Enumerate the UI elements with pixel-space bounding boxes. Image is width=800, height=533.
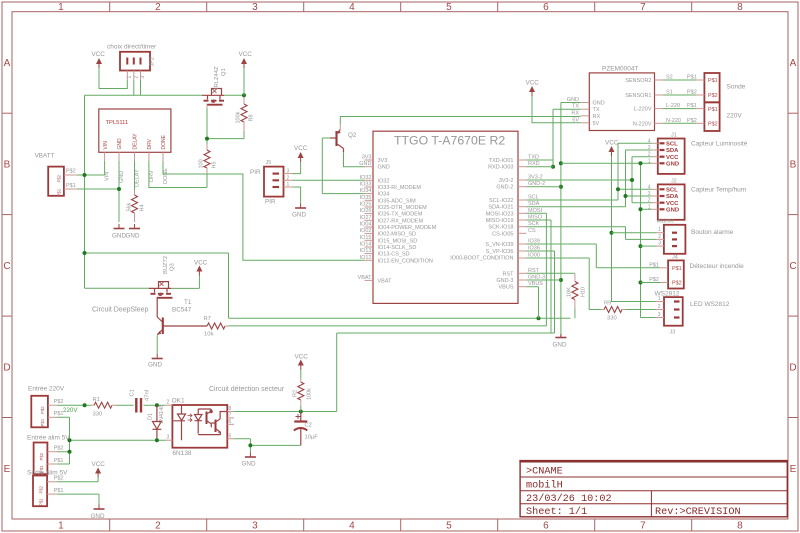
svg-text:L-220V: L-220V xyxy=(634,107,652,113)
svg-text:4: 4 xyxy=(349,521,355,532)
svg-text:>CNAME: >CNAME xyxy=(526,467,563,478)
connector J4sw Bouton alarme xyxy=(657,219,734,254)
internal darlington xyxy=(206,412,208,425)
svg-text:GND: GND xyxy=(593,101,605,107)
svg-text:P$2: P$2 xyxy=(57,174,62,182)
supply VCC (top left) xyxy=(92,51,106,68)
IC PZEM004T xyxy=(567,66,697,131)
svg-text:Q2: Q2 xyxy=(348,132,357,139)
svg-text:3: 3 xyxy=(252,521,258,532)
wire Q3 source to VCC xyxy=(171,276,199,289)
svg-text:VCC: VCC xyxy=(526,80,540,87)
svg-text:6N138: 6N138 xyxy=(172,450,192,457)
svg-text:3: 3 xyxy=(648,145,651,151)
wire T1 emitter to gnd xyxy=(156,336,158,355)
svg-text:SDA: SDA xyxy=(666,194,679,200)
svg-text:1: 1 xyxy=(58,2,64,13)
svg-text:J5: J5 xyxy=(266,160,272,166)
svg-text:IO04-POWER_MODEM: IO04-POWER_MODEM xyxy=(378,225,437,231)
svg-text:MOSI-IO23: MOSI-IO23 xyxy=(486,211,514,217)
wire VCC rail to WS2812 pin1 xyxy=(610,156,656,302)
svg-text:mobilH: mobilH xyxy=(526,480,563,492)
svg-text:GND: GND xyxy=(119,171,125,183)
svg-text:2: 2 xyxy=(155,521,161,532)
svg-text:IO13-CS_SD: IO13-CS_SD xyxy=(378,252,410,258)
svg-text:P$2: P$2 xyxy=(66,169,76,175)
supply VCC (DeepSleep) xyxy=(194,260,208,276)
svg-text:GND: GND xyxy=(112,233,126,240)
svg-text:IO02: IO02 xyxy=(360,228,372,234)
IC TPL5111 xyxy=(99,109,171,187)
resistor R2 100k xyxy=(293,369,313,412)
resistor R8 100k xyxy=(236,93,255,138)
ground (OK1) xyxy=(242,453,256,468)
svg-text:SENSOR2: SENSOR2 xyxy=(625,78,651,84)
wire VCC to JP2 pin1 xyxy=(99,68,127,89)
svg-text:IO12: IO12 xyxy=(360,255,372,261)
svg-text:3: 3 xyxy=(140,76,146,79)
right outside labels xyxy=(528,155,545,288)
ground (sortie 5V) xyxy=(91,505,105,521)
svg-text:5: 5 xyxy=(446,2,452,13)
left inside labels xyxy=(378,158,437,284)
svg-text:IO12-EN_CONDITION: IO12-EN_CONDITION xyxy=(378,258,433,264)
svg-text:SCL: SCL xyxy=(666,188,678,194)
svg-text:3V3: 3V3 xyxy=(362,155,372,161)
connector Entree 220V xyxy=(28,386,65,428)
svg-text:7: 7 xyxy=(229,412,232,418)
connector J3 LED WS2812 xyxy=(655,291,730,336)
wire sortie P$1 to gnd xyxy=(57,494,99,504)
svg-text:PZEM0004T: PZEM0004T xyxy=(602,66,639,73)
svg-text:P$1: P$1 xyxy=(649,262,659,268)
connector J5 PIR xyxy=(250,160,293,206)
svg-text:IO14: IO14 xyxy=(360,242,372,248)
svg-text:DONE: DONE xyxy=(163,168,169,184)
wire 220V P$2 to R1 xyxy=(57,403,91,407)
svg-text:VCC: VCC xyxy=(92,51,106,58)
wire TPL DRV to H5 xyxy=(149,161,207,188)
svg-text:4: 4 xyxy=(349,2,355,13)
svg-text:choix direct/timer: choix direct/timer xyxy=(107,44,157,51)
svg-text:VCC: VCC xyxy=(92,461,106,468)
svg-text:A: A xyxy=(4,58,11,69)
svg-text:C1: C1 xyxy=(130,389,136,396)
connector J4 Detecteur incendie xyxy=(649,255,744,289)
connector Sonde xyxy=(696,73,746,102)
svg-text:IO34: IO34 xyxy=(378,192,390,198)
svg-text:Sheet: 1/1: Sheet: 1/1 xyxy=(526,506,587,518)
svg-text:P$2: P$2 xyxy=(54,446,64,452)
svg-text:P$1: P$1 xyxy=(66,183,76,189)
svg-text:3: 3 xyxy=(658,312,661,318)
wire Q2 collector to GND pin xyxy=(344,152,365,167)
svg-text:VIN: VIN xyxy=(105,172,111,181)
svg-text:C2: C2 xyxy=(305,423,312,429)
svg-text:IO32: IO32 xyxy=(378,178,390,184)
svg-text:23/03/26 10:02: 23/03/26 10:02 xyxy=(526,493,612,505)
left pin stubs xyxy=(365,160,374,280)
svg-text:P$2: P$2 xyxy=(54,399,64,405)
ground (below TTGO) xyxy=(553,334,567,349)
svg-text:330: 330 xyxy=(93,412,103,418)
supply VCC (R2) xyxy=(295,354,309,370)
svg-text:VCC: VCC xyxy=(605,140,619,147)
svg-text:IO35: IO35 xyxy=(360,195,372,201)
svg-text:IO32: IO32 xyxy=(360,175,372,181)
wire PIR pin3 to VCC xyxy=(293,162,301,174)
svg-text:N-220V: N-220V xyxy=(633,121,652,127)
svg-text:DRV: DRV xyxy=(147,138,153,149)
svg-text:100k: 100k xyxy=(307,388,313,400)
wire Bouton pin3 xyxy=(641,245,657,247)
svg-text:Q1: Q1 xyxy=(221,68,227,76)
svg-text:E: E xyxy=(790,464,797,475)
svg-text:2: 2 xyxy=(287,175,290,181)
svg-text:H10: H10 xyxy=(581,287,587,297)
svg-text:PIR: PIR xyxy=(265,199,276,206)
svg-text:7: 7 xyxy=(640,521,646,532)
wire GND-2 xyxy=(527,186,561,188)
svg-text:OK1: OK1 xyxy=(172,398,185,405)
svg-text:5V: 5V xyxy=(593,121,600,127)
connector 220V xyxy=(696,102,742,131)
svg-text:Q3: Q3 xyxy=(170,263,176,271)
svg-text:4: 4 xyxy=(648,138,651,144)
svg-text:GND: GND xyxy=(117,138,123,150)
svg-text:GND: GND xyxy=(359,161,371,167)
svg-text:3V3-2: 3V3-2 xyxy=(499,178,514,184)
wire 3V3-2 to sensors VCC xyxy=(527,157,635,203)
svg-text:VCC: VCC xyxy=(239,51,253,58)
svg-text:1: 1 xyxy=(648,158,651,164)
svg-text:IO33-RI_MODEM: IO33-RI_MODEM xyxy=(378,185,422,191)
svg-text:GND: GND xyxy=(242,461,256,468)
svg-text:3: 3 xyxy=(252,2,258,13)
capacitor C1 47nf xyxy=(130,389,151,412)
left outside labels xyxy=(358,155,373,281)
wire IO39 to Detecteur P$1 xyxy=(527,244,661,268)
ground below H4 xyxy=(126,224,141,240)
title block xyxy=(519,461,788,518)
svg-text:BUZ72: BUZ72 xyxy=(163,256,169,274)
svg-text:VCC: VCC xyxy=(294,145,308,152)
svg-text:IRLZ44Z: IRLZ44Z xyxy=(214,66,220,89)
svg-text:P$2: P$2 xyxy=(672,281,682,287)
svg-text:GND: GND xyxy=(666,208,679,214)
svg-text:P$1: P$1 xyxy=(708,107,718,113)
wire R9 to WS2812 pin2 xyxy=(626,309,656,311)
connector Sortie alim 5V xyxy=(27,470,68,507)
svg-text:JP2: JP2 xyxy=(150,57,156,66)
svg-text:100: 100 xyxy=(199,159,205,168)
svg-text:P$1: P$1 xyxy=(672,266,682,272)
svg-text:MOSI: MOSI xyxy=(528,208,543,214)
wire IO00 to R9 xyxy=(527,258,602,310)
ground (DeepSleep) xyxy=(148,354,163,369)
wire VBATT P$2 net xyxy=(77,95,571,320)
svg-text:3: 3 xyxy=(287,169,290,175)
svg-text:IO26: IO26 xyxy=(360,208,372,214)
svg-text:SCK-IO18: SCK-IO18 xyxy=(488,225,513,231)
svg-text:2: 2 xyxy=(658,234,661,240)
svg-text:SDA: SDA xyxy=(666,148,679,154)
supply VCC (PZEM 5V) xyxy=(526,80,540,97)
wire SCL net xyxy=(527,143,652,200)
wire bus JP2 to Q1 xyxy=(85,94,245,96)
svg-text:VCC: VCC xyxy=(666,201,679,207)
svg-text:B: B xyxy=(790,160,797,171)
svg-text:8: 8 xyxy=(229,406,232,412)
svg-text:2: 2 xyxy=(648,198,651,204)
wire VBUS to battery line xyxy=(527,287,539,319)
svg-text:LED WS2812: LED WS2812 xyxy=(690,301,730,308)
svg-text:IO33: IO33 xyxy=(360,182,372,188)
svg-text:P$2: P$2 xyxy=(39,485,44,493)
svg-text:Entrée 220V: Entrée 220V xyxy=(28,386,65,393)
svg-text:VBUS: VBUS xyxy=(499,285,514,291)
svg-text:P$2: P$2 xyxy=(54,476,64,482)
svg-text:P$2: P$2 xyxy=(649,277,659,283)
svg-text:H4: H4 xyxy=(140,204,146,211)
wire sensors GND rail xyxy=(561,161,656,317)
svg-text:Capteur Temp/hum: Capteur Temp/hum xyxy=(691,187,746,194)
svg-text:A: A xyxy=(790,58,797,69)
svg-text:GND: GND xyxy=(666,162,679,168)
svg-text:SCL: SCL xyxy=(666,142,678,148)
supply VCC (sortie 5V) xyxy=(92,461,106,478)
svg-text:IO15_MOSI_SD: IO15_MOSI_SD xyxy=(378,238,418,244)
svg-text:P$1: P$1 xyxy=(40,418,45,426)
svg-text:PIR: PIR xyxy=(250,169,261,176)
svg-text:2: 2 xyxy=(167,400,170,406)
svg-text:RXD-IO03: RXD-IO03 xyxy=(488,165,513,171)
diode D1 1N4148 xyxy=(148,405,166,440)
svg-text:10k: 10k xyxy=(204,332,213,338)
wire TPL DONE to IO12 xyxy=(163,161,365,260)
svg-text:DELAY: DELAY xyxy=(133,133,139,150)
wire PZEM TX to RXD xyxy=(551,109,581,169)
wire Q2 emitter to PZEM RX xyxy=(340,117,580,125)
svg-text:P$2: P$2 xyxy=(708,93,718,99)
svg-text:R1: R1 xyxy=(93,397,100,403)
wire sensors VCC taps xyxy=(632,157,652,203)
right inside labels xyxy=(450,158,514,291)
svg-text:3: 3 xyxy=(648,191,651,197)
wire IO36 drop xyxy=(527,251,555,333)
transistor Q3 BUZ72 xyxy=(149,256,176,298)
supply VCC (sensors rail) xyxy=(605,140,619,157)
svg-text:TTGO T-A7670E R2: TTGO T-A7670E R2 xyxy=(394,134,505,148)
svg-text:DELAY: DELAY xyxy=(134,169,140,187)
svg-text:SDA-IO21: SDA-IO21 xyxy=(488,205,513,211)
svg-text:CS: CS xyxy=(528,228,536,234)
svg-text:2: 2 xyxy=(658,304,661,310)
optocoupler OK1 6N138 xyxy=(166,398,234,458)
wire TXD xyxy=(527,159,554,161)
ground below TPL5111 GND pin xyxy=(112,224,126,240)
svg-text:10µF: 10µF xyxy=(305,435,319,441)
IC U1 TTGO T-A7670E R2 xyxy=(358,131,546,303)
connector Entree alim 5V xyxy=(27,435,70,475)
svg-text:CS-IO05: CS-IO05 xyxy=(492,231,513,237)
capacitor C2 10uF xyxy=(294,412,318,446)
wire SCK to OK1 xyxy=(337,220,555,412)
svg-text:B: B xyxy=(4,160,11,171)
svg-text:6: 6 xyxy=(543,521,549,532)
wire Bouton pin1 xyxy=(612,232,657,234)
svg-text:RST: RST xyxy=(503,271,515,277)
svg-text:220V: 220V xyxy=(63,407,78,414)
svg-text:P$2: P$2 xyxy=(39,452,44,460)
resistor R7 10k xyxy=(204,316,229,338)
svg-text:DRV: DRV xyxy=(149,170,155,182)
svg-text:10K: 10K xyxy=(567,287,573,297)
svg-text:Circuit détection secteur: Circuit détection secteur xyxy=(209,386,285,393)
svg-text:IO25: IO25 xyxy=(360,202,372,208)
svg-text:VIN: VIN xyxy=(103,141,109,150)
svg-text:3: 3 xyxy=(658,241,661,247)
wire Q1 gate node xyxy=(205,105,244,144)
svg-text:IO34: IO34 xyxy=(360,188,372,194)
svg-text:GND: GND xyxy=(148,362,162,369)
svg-text:330: 330 xyxy=(607,316,617,322)
svg-text:P$1: P$1 xyxy=(54,488,64,494)
svg-text:1N4148: 1N4148 xyxy=(159,405,165,424)
svg-text:VBAT: VBAT xyxy=(358,275,373,281)
svg-text:3V3: 3V3 xyxy=(378,158,388,164)
svg-text:VCC: VCC xyxy=(295,354,309,361)
svg-text:1: 1 xyxy=(127,76,133,79)
wire Q2 base to IO34 xyxy=(322,138,364,194)
svg-text:8: 8 xyxy=(737,2,743,13)
wire VBATT P$1 / GND net xyxy=(77,161,121,222)
resistor H10 10K xyxy=(567,273,587,318)
wire RST to H10 xyxy=(527,272,575,274)
svg-text:8: 8 xyxy=(737,521,743,532)
svg-text:P$2: P$2 xyxy=(40,406,45,414)
svg-text:3: 3 xyxy=(167,435,170,441)
svg-text:TXD-IO01: TXD-IO01 xyxy=(489,158,514,164)
transistor Q2 xyxy=(330,125,357,153)
svg-text:Détecteur incendie: Détecteur incendie xyxy=(690,263,745,270)
svg-text:P$2: P$2 xyxy=(708,122,718,128)
connector J1 Capteur Luminosite xyxy=(648,133,748,174)
svg-text:56k: 56k xyxy=(127,202,133,211)
svg-text:GND-2: GND-2 xyxy=(496,185,513,191)
svg-text:GND: GND xyxy=(292,212,306,219)
svg-text:GND: GND xyxy=(553,342,567,349)
wire Detecteur P$2 xyxy=(641,282,661,284)
svg-text:6: 6 xyxy=(229,419,232,425)
svg-text:TPL5111: TPL5111 xyxy=(106,120,129,126)
svg-text:IO00-BOOT_CONDITION: IO00-BOOT_CONDITION xyxy=(450,256,513,262)
svg-text:Capteur Luminosité: Capteur Luminosité xyxy=(691,141,748,148)
svg-text:RX: RX xyxy=(571,110,579,116)
transistor T1 BC547 xyxy=(157,298,207,335)
svg-text:GND: GND xyxy=(91,513,105,520)
wire neutral vertical xyxy=(57,417,71,464)
right pin stubs xyxy=(518,160,527,287)
svg-text:C: C xyxy=(3,261,10,272)
svg-text:GND: GND xyxy=(126,233,140,240)
wire OK1 pin3 / D1 rail xyxy=(70,438,166,442)
svg-text:R7: R7 xyxy=(204,316,211,322)
svg-text:IO26-TX_MODEM: IO26-TX_MODEM xyxy=(378,212,423,218)
svg-text:J3: J3 xyxy=(670,330,676,336)
svg-text:GND: GND xyxy=(378,165,390,171)
wire C1 to OK1 pin2 xyxy=(144,403,166,407)
svg-text:7: 7 xyxy=(640,2,646,13)
svg-text:2: 2 xyxy=(134,76,140,79)
svg-text:S_VP-IO36: S_VP-IO36 xyxy=(486,249,514,255)
wire GND-3 xyxy=(527,279,561,281)
svg-text:R8: R8 xyxy=(249,114,255,121)
svg-text:Entrée alim 5V: Entrée alim 5V xyxy=(27,435,70,442)
resistor H5 100 xyxy=(199,144,218,174)
wire TPL DELAY drop to H4 xyxy=(134,161,136,190)
svg-text:IO15: IO15 xyxy=(360,235,372,241)
svg-text:H5: H5 xyxy=(212,161,218,168)
wire R7 to MISO xyxy=(229,213,547,326)
svg-text:RX: RX xyxy=(593,114,601,120)
svg-text:P$1: P$1 xyxy=(39,498,44,506)
svg-text:J1: J1 xyxy=(671,133,677,139)
resistor H4 56k xyxy=(127,190,146,222)
svg-text:220V: 220V xyxy=(727,113,743,120)
svg-text:IO02-MISO_SD: IO02-MISO_SD xyxy=(378,232,417,238)
svg-text:1: 1 xyxy=(648,204,651,210)
connector JP2 xyxy=(120,52,156,80)
svg-text:6: 6 xyxy=(543,2,549,13)
svg-text:IO14-SCLK_SD: IO14-SCLK_SD xyxy=(378,245,417,251)
svg-text:P$1: P$1 xyxy=(54,458,64,464)
svg-text:IO35-ADC_SIM: IO35-ADC_SIM xyxy=(378,198,417,204)
svg-text:1: 1 xyxy=(658,227,661,233)
wire CS to Bouton pin2 xyxy=(527,227,657,240)
svg-text:IO27: IO27 xyxy=(360,215,372,221)
supply VCC (above R8) xyxy=(239,51,253,95)
svg-text:1: 1 xyxy=(58,521,64,532)
svg-text:Alarme: Alarme xyxy=(657,219,674,225)
svg-text:E: E xyxy=(4,464,11,475)
svg-text:2: 2 xyxy=(155,2,161,13)
supply VCC (PIR) xyxy=(294,145,308,162)
svg-text:5: 5 xyxy=(446,521,452,532)
svg-text:DONE: DONE xyxy=(161,134,167,149)
wire PZEM GND down xyxy=(559,103,581,335)
svg-text:P$1: P$1 xyxy=(708,78,718,84)
wire RXD xyxy=(527,166,554,168)
resistor R9 330 xyxy=(601,301,626,322)
svg-text:VBATT: VBATT xyxy=(35,153,55,160)
svg-text:VCC: VCC xyxy=(194,260,208,267)
svg-text:Sonde: Sonde xyxy=(727,84,746,91)
svg-text:IO27-RX_MODEM: IO27-RX_MODEM xyxy=(378,218,424,224)
svg-text:TX: TX xyxy=(593,107,600,113)
internal photodiode xyxy=(195,415,203,421)
svg-text:IO04: IO04 xyxy=(360,222,372,228)
svg-text:SENSOR1: SENSOR1 xyxy=(625,93,651,99)
svg-text:1: 1 xyxy=(287,182,290,188)
wire JP2 pins 2,3 to bus xyxy=(134,80,141,95)
svg-text:BC547: BC547 xyxy=(172,307,192,314)
svg-text:5: 5 xyxy=(229,433,232,439)
svg-text:Bouton alarme: Bouton alarme xyxy=(691,229,734,236)
svg-text:2: 2 xyxy=(648,152,651,158)
svg-text:D: D xyxy=(3,363,10,374)
wire PIR pin1 to gnd xyxy=(293,187,301,204)
